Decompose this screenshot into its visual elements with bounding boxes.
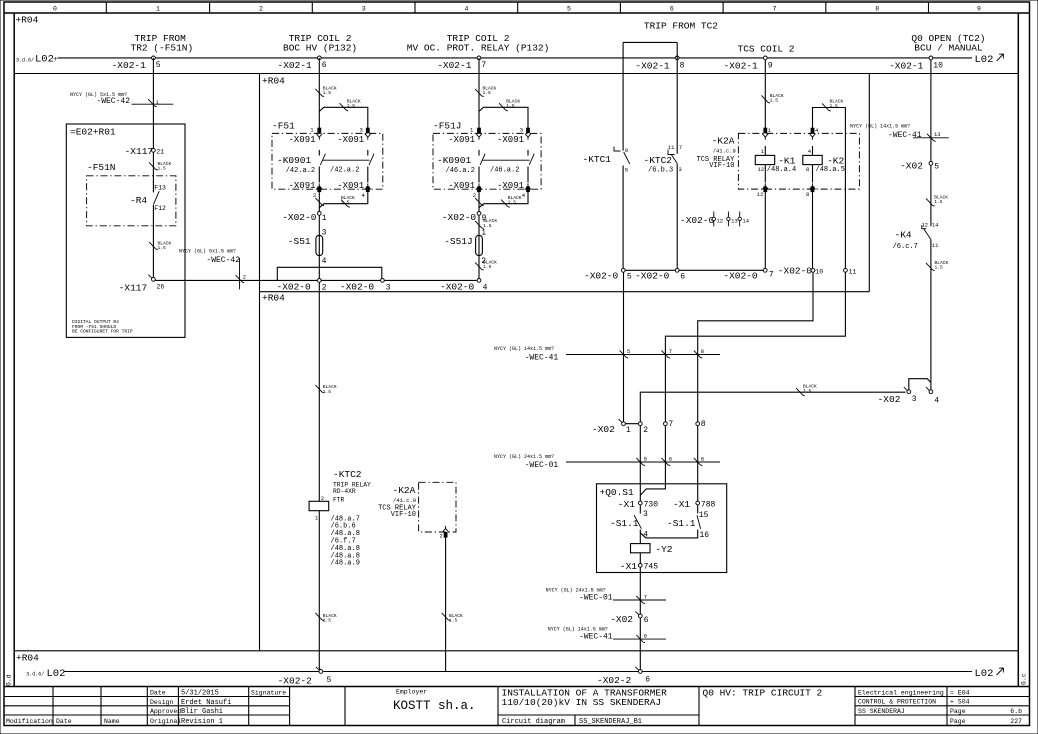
svg-text:1.5: 1.5 (770, 98, 779, 104)
svg-text:227: 227 (1010, 718, 1022, 725)
svg-text:3: 3 (912, 395, 917, 404)
terminal -X02-1:9 (763, 56, 767, 60)
svg-text:BCU / MANUAL: BCU / MANUAL (914, 43, 983, 54)
svg-text:3: 3 (520, 127, 523, 134)
terminal -X1:730 (638, 501, 642, 505)
svg-text:1.5: 1.5 (483, 264, 492, 270)
svg-text:/46.a.2: /46.a.2 (446, 167, 475, 175)
svg-text:1.5: 1.5 (934, 199, 943, 205)
svg-text:-X091: -X091 (497, 181, 524, 191)
terminal -X02-0:11 (844, 268, 848, 272)
wire type mark BLACK 1.5 (341, 200, 350, 208)
wire step from terminal 10 (698, 272, 813, 422)
svg-text:8: 8 (701, 456, 704, 463)
svg-text:-WEC-42: -WEC-42 (96, 97, 130, 106)
wire bridge 3 to 4 (909, 379, 931, 390)
svg-text:11: 11 (668, 144, 675, 151)
wire X02:8 down (697, 426, 699, 502)
svg-text:-KTC2: -KTC2 (333, 469, 362, 480)
svg-text:8: 8 (806, 166, 809, 173)
svg-text:-S51J: -S51J (444, 236, 473, 247)
svg-text:1.5: 1.5 (803, 388, 812, 394)
svg-text:5/31/2015: 5/31/2015 (181, 690, 219, 698)
svg-text:1.5: 1.5 (830, 103, 839, 109)
terminal K2A:8 (810, 183, 816, 189)
svg-text:-X1: -X1 (673, 499, 690, 510)
wire branch to F51J pin 3 (479, 107, 528, 128)
svg-text:-WEC-41: -WEC-41 (525, 353, 559, 362)
svg-text:Page: Page (950, 718, 966, 725)
wire col3 from bus (478, 58, 480, 128)
svg-text:1: 1 (310, 127, 314, 134)
svg-text:-X02-0: -X02-0 (584, 270, 619, 281)
terminal -X02-0:2 (317, 279, 321, 283)
svg-text:-X1: -X1 (618, 499, 635, 510)
relay box =E02+R01 (66, 124, 185, 337)
cross references KTC2 (331, 515, 360, 567)
svg-text:-X02-1: -X02-1 (278, 60, 313, 71)
wire type mark BLACK 1.5 (475, 262, 484, 270)
svg-text:NYCY (GL) 14x1.5 mm?: NYCY (GL) 14x1.5 mm? (494, 346, 554, 352)
device -K2A dashed box (738, 133, 859, 189)
svg-text:-X091: -X091 (497, 135, 524, 145)
wire TC2 left leg upper (622, 42, 624, 150)
wire type mark BLACK 1.5 (149, 162, 158, 170)
svg-text:9: 9 (768, 62, 773, 71)
svg-text:MV OC. PROT. RELAY (P132): MV OC. PROT. RELAY (P132) (407, 43, 550, 54)
svg-text:Circuit diagram: Circuit diagram (502, 718, 565, 726)
svg-text:L02: L02 (975, 54, 994, 66)
wire Y2 down below box (639, 567, 641, 614)
terminal -X091:4 bottom right (365, 183, 371, 189)
svg-text:L02: L02 (35, 53, 54, 65)
terminal -X02-0:7 (763, 268, 767, 272)
svg-text:4: 4 (522, 192, 526, 199)
contact K0901 right pole (367, 150, 369, 156)
svg-text:BE CONFIGURET FOR TRIP: BE CONFIGURET FOR TRIP (72, 329, 133, 335)
svg-text:-K1: -K1 (778, 156, 795, 167)
svg-text:-X02-0: -X02-0 (778, 265, 813, 276)
wire to fuse S51 (318, 215, 320, 278)
location box +R04 middle right edge (868, 74, 870, 292)
svg-text:-X02-0: -X02-0 (277, 281, 312, 292)
terminal -X02:6 (635, 611, 642, 618)
wire riser to K1 (764, 60, 766, 128)
svg-text:F12: F12 (154, 205, 166, 212)
svg-text:1.5: 1.5 (323, 90, 332, 96)
svg-text:-X02-0: -X02-0 (442, 212, 477, 223)
terminal -X091:2 bottom left (316, 183, 322, 189)
wire type mark on left wire (475, 198, 484, 206)
wire type mark BLACK 1.5 (761, 95, 770, 103)
terminal K2A:1 (763, 128, 767, 134)
svg-text:-X02-2: -X02-2 (597, 675, 632, 686)
svg-text:TCS COIL 2: TCS COIL 2 (738, 44, 795, 55)
coil -KTC2 (309, 501, 329, 510)
svg-text:-F51: -F51 (272, 120, 295, 131)
svg-text:CONTROL & PROTECTION: CONTROL & PROTECTION (858, 699, 936, 706)
svg-text:-X117: -X117 (125, 146, 154, 157)
svg-text:-X091: -X091 (337, 135, 364, 145)
svg-text:1.5: 1.5 (158, 166, 167, 172)
svg-text:5: 5 (567, 6, 571, 13)
svg-text:/42.a.2: /42.a.2 (330, 167, 359, 175)
wire type mark BLACK 1.5 (822, 103, 831, 111)
terminal -X02-0:1 (317, 212, 321, 216)
svg-text:/6.c.7: /6.c.7 (893, 243, 918, 251)
svg-text:F13: F13 (154, 184, 166, 191)
wire col2 from bus (318, 58, 320, 128)
svg-text:6.b: 6.b (1010, 708, 1022, 715)
terminal -X02:4 (926, 387, 933, 394)
wire S1.1 pole2 to Y2 (640, 530, 697, 538)
svg-text:VIF-10: VIF-10 (391, 511, 416, 519)
contact K0901 left pole (478, 150, 480, 156)
svg-text:1.5: 1.5 (158, 245, 167, 251)
wire type mark BLACK 1.5 on branch (499, 103, 508, 111)
svg-text:Date: Date (150, 690, 166, 697)
svg-text:1.5: 1.5 (506, 103, 515, 109)
wire F51 pin4 join (319, 192, 368, 208)
svg-text:TRIP FROM TC2: TRIP FROM TC2 (644, 20, 718, 31)
svg-text:-K2A: -K2A (712, 136, 735, 147)
svg-text:-WEC-01: -WEC-01 (579, 593, 613, 602)
wire to fuse S51J (478, 215, 480, 278)
svg-text:-S1.1: -S1.1 (610, 518, 639, 529)
svg-text:9: 9 (625, 147, 628, 154)
svg-text:=E02+R01: =E02+R01 (70, 126, 116, 137)
wire KTC2 coil to bottom bus (318, 511, 320, 669)
svg-text:-X02-0: -X02-0 (340, 281, 375, 292)
terminal -X091:4 bottom right (525, 183, 531, 189)
wire type mark on left wire (315, 198, 324, 206)
svg-text:1: 1 (322, 214, 327, 223)
svg-text:2: 2 (321, 495, 324, 502)
svg-text:SS_SKENDERAJ_B1: SS_SKENDERAJ_B1 (579, 718, 642, 726)
svg-text:7: 7 (481, 61, 486, 70)
svg-text:788: 788 (701, 501, 716, 510)
terminal -X091:3 top right (366, 128, 370, 134)
drawing bottom / title top line (4, 686, 1030, 688)
svg-text:1.5: 1.5 (347, 103, 356, 109)
wire L02 top bus (58, 57, 973, 59)
svg-text:Date: Date (56, 718, 72, 725)
svg-text:5: 5 (625, 166, 628, 173)
wire K1 to terminal 7 (764, 192, 766, 268)
svg-text:14: 14 (932, 221, 939, 228)
terminal K2A:4 (811, 128, 815, 134)
wire X02:7 down with jog (640, 426, 665, 496)
terminal -X02-0:9 (477, 212, 481, 216)
wire type mark BLACK 1.5 (149, 242, 158, 250)
svg-text:7: 7 (669, 348, 672, 355)
svg-text:3: 3 (360, 127, 363, 134)
svg-text:Name: Name (104, 718, 120, 725)
svg-text:-X1: -X1 (620, 561, 637, 572)
terminal -X02-2:6 (635, 667, 642, 674)
svg-text:+R04: +R04 (16, 15, 39, 26)
svg-text:6: 6 (670, 6, 674, 13)
svg-text:-X117: -X117 (119, 283, 148, 294)
svg-text:-X02: -X02 (610, 614, 633, 625)
svg-text:11: 11 (932, 242, 939, 249)
svg-text:4: 4 (815, 127, 819, 134)
svg-text:6: 6 (644, 633, 647, 640)
svg-text:21: 21 (156, 149, 164, 156)
svg-text:6: 6 (680, 272, 685, 281)
terminal -X02-0:5 (621, 268, 625, 272)
svg-text:BOC HV (P132): BOC HV (P132) (283, 43, 357, 54)
terminal -X02:1 (619, 419, 626, 426)
wire TC2 right leg lower (676, 164, 678, 269)
linkage line K0901 (323, 159, 370, 161)
svg-text:+R04: +R04 (16, 653, 39, 664)
title column lines (52, 687, 54, 726)
svg-text:4: 4 (808, 148, 812, 155)
terminal -X02-1:6 (317, 56, 321, 60)
svg-text:NYCY (GL) 24x1.5 mm?: NYCY (GL) 24x1.5 mm? (494, 454, 554, 460)
svg-text:-WEC-01: -WEC-01 (525, 461, 559, 470)
svg-text:/41.c.9: /41.c.9 (393, 497, 416, 504)
svg-text:-K0901: -K0901 (437, 155, 472, 166)
svg-text:12: 12 (758, 166, 765, 173)
wire terminal row (623, 269, 765, 271)
svg-text:-WEC-41: -WEC-41 (579, 633, 613, 642)
svg-text:3: 3 (362, 6, 366, 13)
svg-text:+R04: +R04 (262, 76, 285, 87)
device -K2A dashed box (419, 482, 456, 532)
svg-text:-X02-0: -X02-0 (282, 212, 317, 223)
svg-text:10: 10 (933, 62, 943, 71)
wire K2 to terminal 10 (812, 192, 814, 268)
terminal -X117:21 (152, 148, 156, 152)
wire type mark BLACK 1.5 (796, 388, 805, 396)
wire Q0 from bus (930, 60, 932, 162)
svg-text:-KTC2: -KTC2 (644, 155, 673, 166)
svg-text:-X02-1: -X02-1 (437, 60, 472, 71)
terminal -X02-0:4 (477, 279, 481, 283)
svg-text:/48.a.4: /48.a.4 (767, 166, 796, 174)
svg-text:Q0 HV: TRIP CIRCUIT 2: Q0 HV: TRIP CIRCUIT 2 (703, 688, 823, 699)
terminal -X02:5 (929, 161, 933, 165)
terminal -X091:2 bottom left (476, 183, 482, 189)
svg-text:-X02-1: -X02-1 (635, 61, 670, 72)
fuse -S51 (316, 235, 323, 255)
svg-text:+: + (53, 56, 57, 64)
svg-text:-K2A: -K2A (393, 485, 416, 496)
wire X117:26 to X02-0:4 (155, 279, 479, 281)
svg-text:1: 1 (315, 515, 319, 522)
fuse -S51J (476, 235, 483, 255)
svg-text:-K4: -K4 (895, 229, 912, 240)
svg-text:1.5: 1.5 (935, 265, 944, 271)
terminal -X1:745 (638, 564, 642, 568)
wire type mark BLACK 1.5 (926, 263, 935, 271)
svg-text:5: 5 (934, 162, 939, 171)
svg-text:-S51: -S51 (288, 236, 311, 247)
svg-text:-X02-0: -X02-0 (635, 270, 670, 281)
svg-text:-X091: -X091 (289, 135, 316, 145)
title row lines right section (855, 696, 1030, 698)
svg-text:6: 6 (645, 676, 650, 685)
wire type mark BLACK 1.5 (501, 200, 510, 208)
svg-text:1: 1 (470, 127, 474, 134)
svg-text:4: 4 (934, 397, 939, 406)
wire K4 down to X02:4 (930, 239, 932, 390)
svg-text:-X02-0: -X02-0 (723, 270, 758, 281)
terminal -X02:2 (638, 422, 642, 426)
wire K2A to bottom bus (445, 538, 447, 672)
svg-text:-X091: -X091 (448, 135, 475, 145)
svg-text:-K0901: -K0901 (277, 155, 312, 166)
svg-text:6.c: 6.c (1021, 673, 1028, 685)
svg-text:4: 4 (464, 6, 468, 13)
svg-text:5: 5 (627, 348, 630, 355)
terminal -X02:8 (696, 422, 700, 426)
terminal -X02-1:7 (477, 56, 481, 60)
svg-text:-KTC1: -KTC1 (583, 154, 612, 165)
svg-text:/42.a.2: /42.a.2 (286, 167, 315, 175)
coil -Y2 (639, 530, 641, 544)
wire bridge jumper 2 to 3 (277, 267, 382, 280)
svg-text:7: 7 (773, 6, 777, 13)
svg-text:-X02: -X02 (878, 394, 901, 405)
wire branch to F51 pin 3 (319, 107, 368, 128)
svg-text:26: 26 (157, 284, 165, 291)
svg-text:/48.a.9: /48.a.9 (331, 560, 360, 568)
wire X02:6 down (639, 618, 641, 670)
svg-text:L02: L02 (975, 668, 994, 680)
svg-text:-F51J: -F51J (433, 120, 462, 131)
inner drawing frame left (13, 13, 15, 687)
wire riser X02:2 to X02:3 (640, 392, 905, 422)
location band line under terminal row (14, 73, 1018, 75)
svg-text:3.d.6/: 3.d.6/ (16, 57, 34, 63)
svg-text:Revision 1: Revision 1 (181, 718, 223, 726)
svg-text:3.d.6/: 3.d.6/ (26, 671, 44, 677)
svg-text:4: 4 (362, 192, 366, 199)
terminal -X02:3 (904, 387, 911, 394)
svg-text:/46.a.2: /46.a.2 (490, 167, 519, 175)
svg-text:8: 8 (806, 191, 809, 198)
terminal -X02-1:10 (929, 56, 933, 60)
svg-text:Erdet Nasufi: Erdet Nasufi (181, 699, 231, 707)
svg-text:SS SKENDERAJ: SS SKENDERAJ (858, 708, 905, 715)
svg-text:-X091: -X091 (337, 181, 364, 191)
coil -K1 (764, 146, 766, 155)
svg-text:-R4: -R4 (130, 195, 147, 206)
svg-text:Approved: Approved (150, 708, 181, 715)
svg-text:-X02-0: -X02-0 (440, 281, 475, 292)
svg-text:745: 745 (644, 563, 659, 572)
svg-text:FTR: FTR (333, 497, 345, 504)
svg-text:+ S04: + S04 (950, 699, 970, 706)
svg-text:-X091: -X091 (289, 181, 316, 191)
terminal K2A:2 bottom (443, 526, 449, 532)
terminal -X02-0:10 (811, 268, 815, 272)
svg-text:-Y2: -Y2 (655, 544, 672, 555)
wire X02:5 to K4 (930, 165, 932, 226)
svg-text:12: 12 (717, 218, 724, 225)
wire F51J pin4 join (479, 192, 528, 208)
svg-text:-X02-1: -X02-1 (889, 61, 924, 72)
wire link 1-2 (624, 423, 641, 425)
svg-text:4: 4 (322, 257, 327, 266)
svg-text:Blir Gashi: Blir Gashi (181, 708, 223, 716)
svg-text:= E04: = E04 (950, 689, 970, 696)
wire type mark BLACK 1.5 (442, 613, 451, 621)
svg-text:1.5: 1.5 (323, 618, 332, 624)
location box +R04 left edge (259, 74, 261, 651)
svg-text:-X02-0: -X02-0 (680, 215, 715, 226)
inner drawing frame right (1017, 13, 1019, 687)
svg-text:NYCY (GL) 14x1.5 mm?: NYCY (GL) 14x1.5 mm? (548, 626, 608, 632)
wire X02:2 down (639, 426, 641, 502)
svg-text:8: 8 (680, 62, 685, 71)
terminal -X02-1:5 (152, 56, 156, 60)
svg-text:1.5: 1.5 (508, 200, 517, 206)
svg-text:RD-4XR: RD-4XR (333, 488, 356, 495)
svg-text:14: 14 (742, 218, 749, 225)
svg-text:5: 5 (156, 61, 161, 70)
wire col2 down to KTC2 coil (318, 282, 320, 501)
wire TC2 left leg lower (622, 166, 624, 269)
svg-text:3: 3 (679, 166, 682, 173)
location box +R04 middle bottom edge (260, 291, 870, 293)
terminal -X02-2:5 (316, 667, 323, 674)
svg-text:8: 8 (875, 6, 879, 13)
svg-text:9: 9 (977, 6, 981, 13)
svg-text:5: 5 (644, 456, 647, 463)
svg-text:7: 7 (679, 144, 682, 151)
location band line above bottom bus (14, 650, 1018, 652)
wire type mark BLACK 1.5 (475, 221, 484, 229)
svg-text:Signature: Signature (251, 689, 286, 696)
wire col1 upper (152, 58, 154, 193)
svg-text:11: 11 (849, 269, 857, 276)
svg-text:10: 10 (815, 269, 823, 276)
svg-text:-X02-1: -X02-1 (724, 61, 759, 72)
wire type mark BLACK 1.5 (315, 613, 324, 621)
svg-text:-X02-1: -X02-1 (112, 60, 147, 71)
svg-text:2: 2 (643, 426, 648, 435)
ruler ticks (106, 2, 928, 13)
svg-text:-S1.1: -S1.1 (667, 518, 696, 529)
svg-text:1.5: 1.5 (323, 389, 332, 395)
ruler numbers (53, 6, 981, 13)
svg-text:1: 1 (626, 426, 631, 435)
svg-text:1: 1 (156, 99, 160, 106)
svg-text:1: 1 (768, 127, 772, 134)
svg-text:-X091: -X091 (448, 181, 475, 191)
terminal -X091:1 top left (317, 128, 321, 134)
wire col3 below F51J (478, 192, 480, 211)
svg-text:1.5: 1.5 (449, 618, 458, 624)
svg-text:-F51N: -F51N (87, 162, 116, 173)
svg-text:Employer: Employer (396, 688, 427, 695)
svg-text:1.5: 1.5 (341, 200, 350, 206)
svg-text:Modification: Modification (6, 718, 53, 725)
svg-text:+Q0.S1: +Q0.S1 (600, 487, 635, 498)
svg-text:3: 3 (386, 283, 391, 292)
svg-text:Electrical engineering: Electrical engineering (858, 689, 944, 696)
svg-text:12: 12 (757, 191, 764, 198)
wire type mark BLACK 1.5 (926, 198, 935, 206)
svg-text:6.d: 6.d (6, 674, 13, 686)
svg-text:5: 5 (627, 272, 632, 281)
svg-text:/48.a.5: /48.a.5 (816, 166, 845, 174)
svg-text:110/10(20)kV IN SS SKENDERAJ: 110/10(20)kV IN SS SKENDERAJ (502, 697, 662, 708)
